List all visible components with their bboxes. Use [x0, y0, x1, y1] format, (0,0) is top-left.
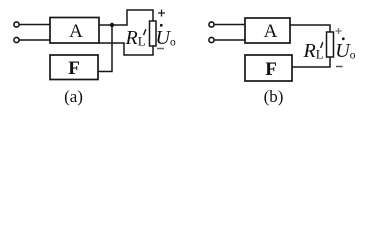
svg-text:(b): (b)	[264, 87, 284, 106]
wire A top output (a)	[99, 10, 153, 25]
label plus (a)	[158, 10, 165, 17]
wire A output to resistor (b)	[290, 25, 330, 32]
wire input bottom (b)	[215, 39, 246, 41]
label Uo (a)	[160, 24, 163, 27]
label minus (a)	[157, 48, 164, 50]
prime mark of RL (a)	[144, 29, 146, 35]
wire input top (b)	[215, 24, 246, 26]
amplifier block A (b)	[245, 18, 290, 43]
feedback block F (a)	[50, 55, 98, 80]
svg-text:A: A	[69, 21, 83, 42]
svg-text:(a): (a)	[64, 87, 83, 106]
wire input top (a)	[20, 24, 51, 26]
resistor RL' (b)	[327, 32, 334, 57]
label plus (b)	[336, 28, 342, 34]
label Uo (b)	[342, 37, 345, 40]
amplifier block A (a)	[50, 18, 99, 44]
label minus (b)	[336, 66, 343, 68]
svg-text:F: F	[265, 59, 277, 80]
prime mark of RL (b)	[321, 42, 323, 48]
svg-text:A: A	[264, 21, 278, 42]
input terminal bottom (a)	[14, 37, 19, 42]
svg-text:F: F	[68, 58, 80, 79]
node junction dot (a)	[110, 23, 114, 27]
input terminal top (b)	[209, 22, 214, 27]
input terminal top (a)	[14, 22, 19, 27]
wire input bottom (a)	[20, 39, 51, 41]
wire resistor bottom to F (b)	[292, 57, 330, 67]
wire feedback node vertical (a)	[98, 25, 112, 72]
resistor RL' (a)	[150, 21, 157, 46]
wire resistor bottom (a)	[99, 43, 153, 55]
feedback block F (b)	[245, 55, 292, 81]
input terminal bottom (b)	[209, 37, 214, 42]
